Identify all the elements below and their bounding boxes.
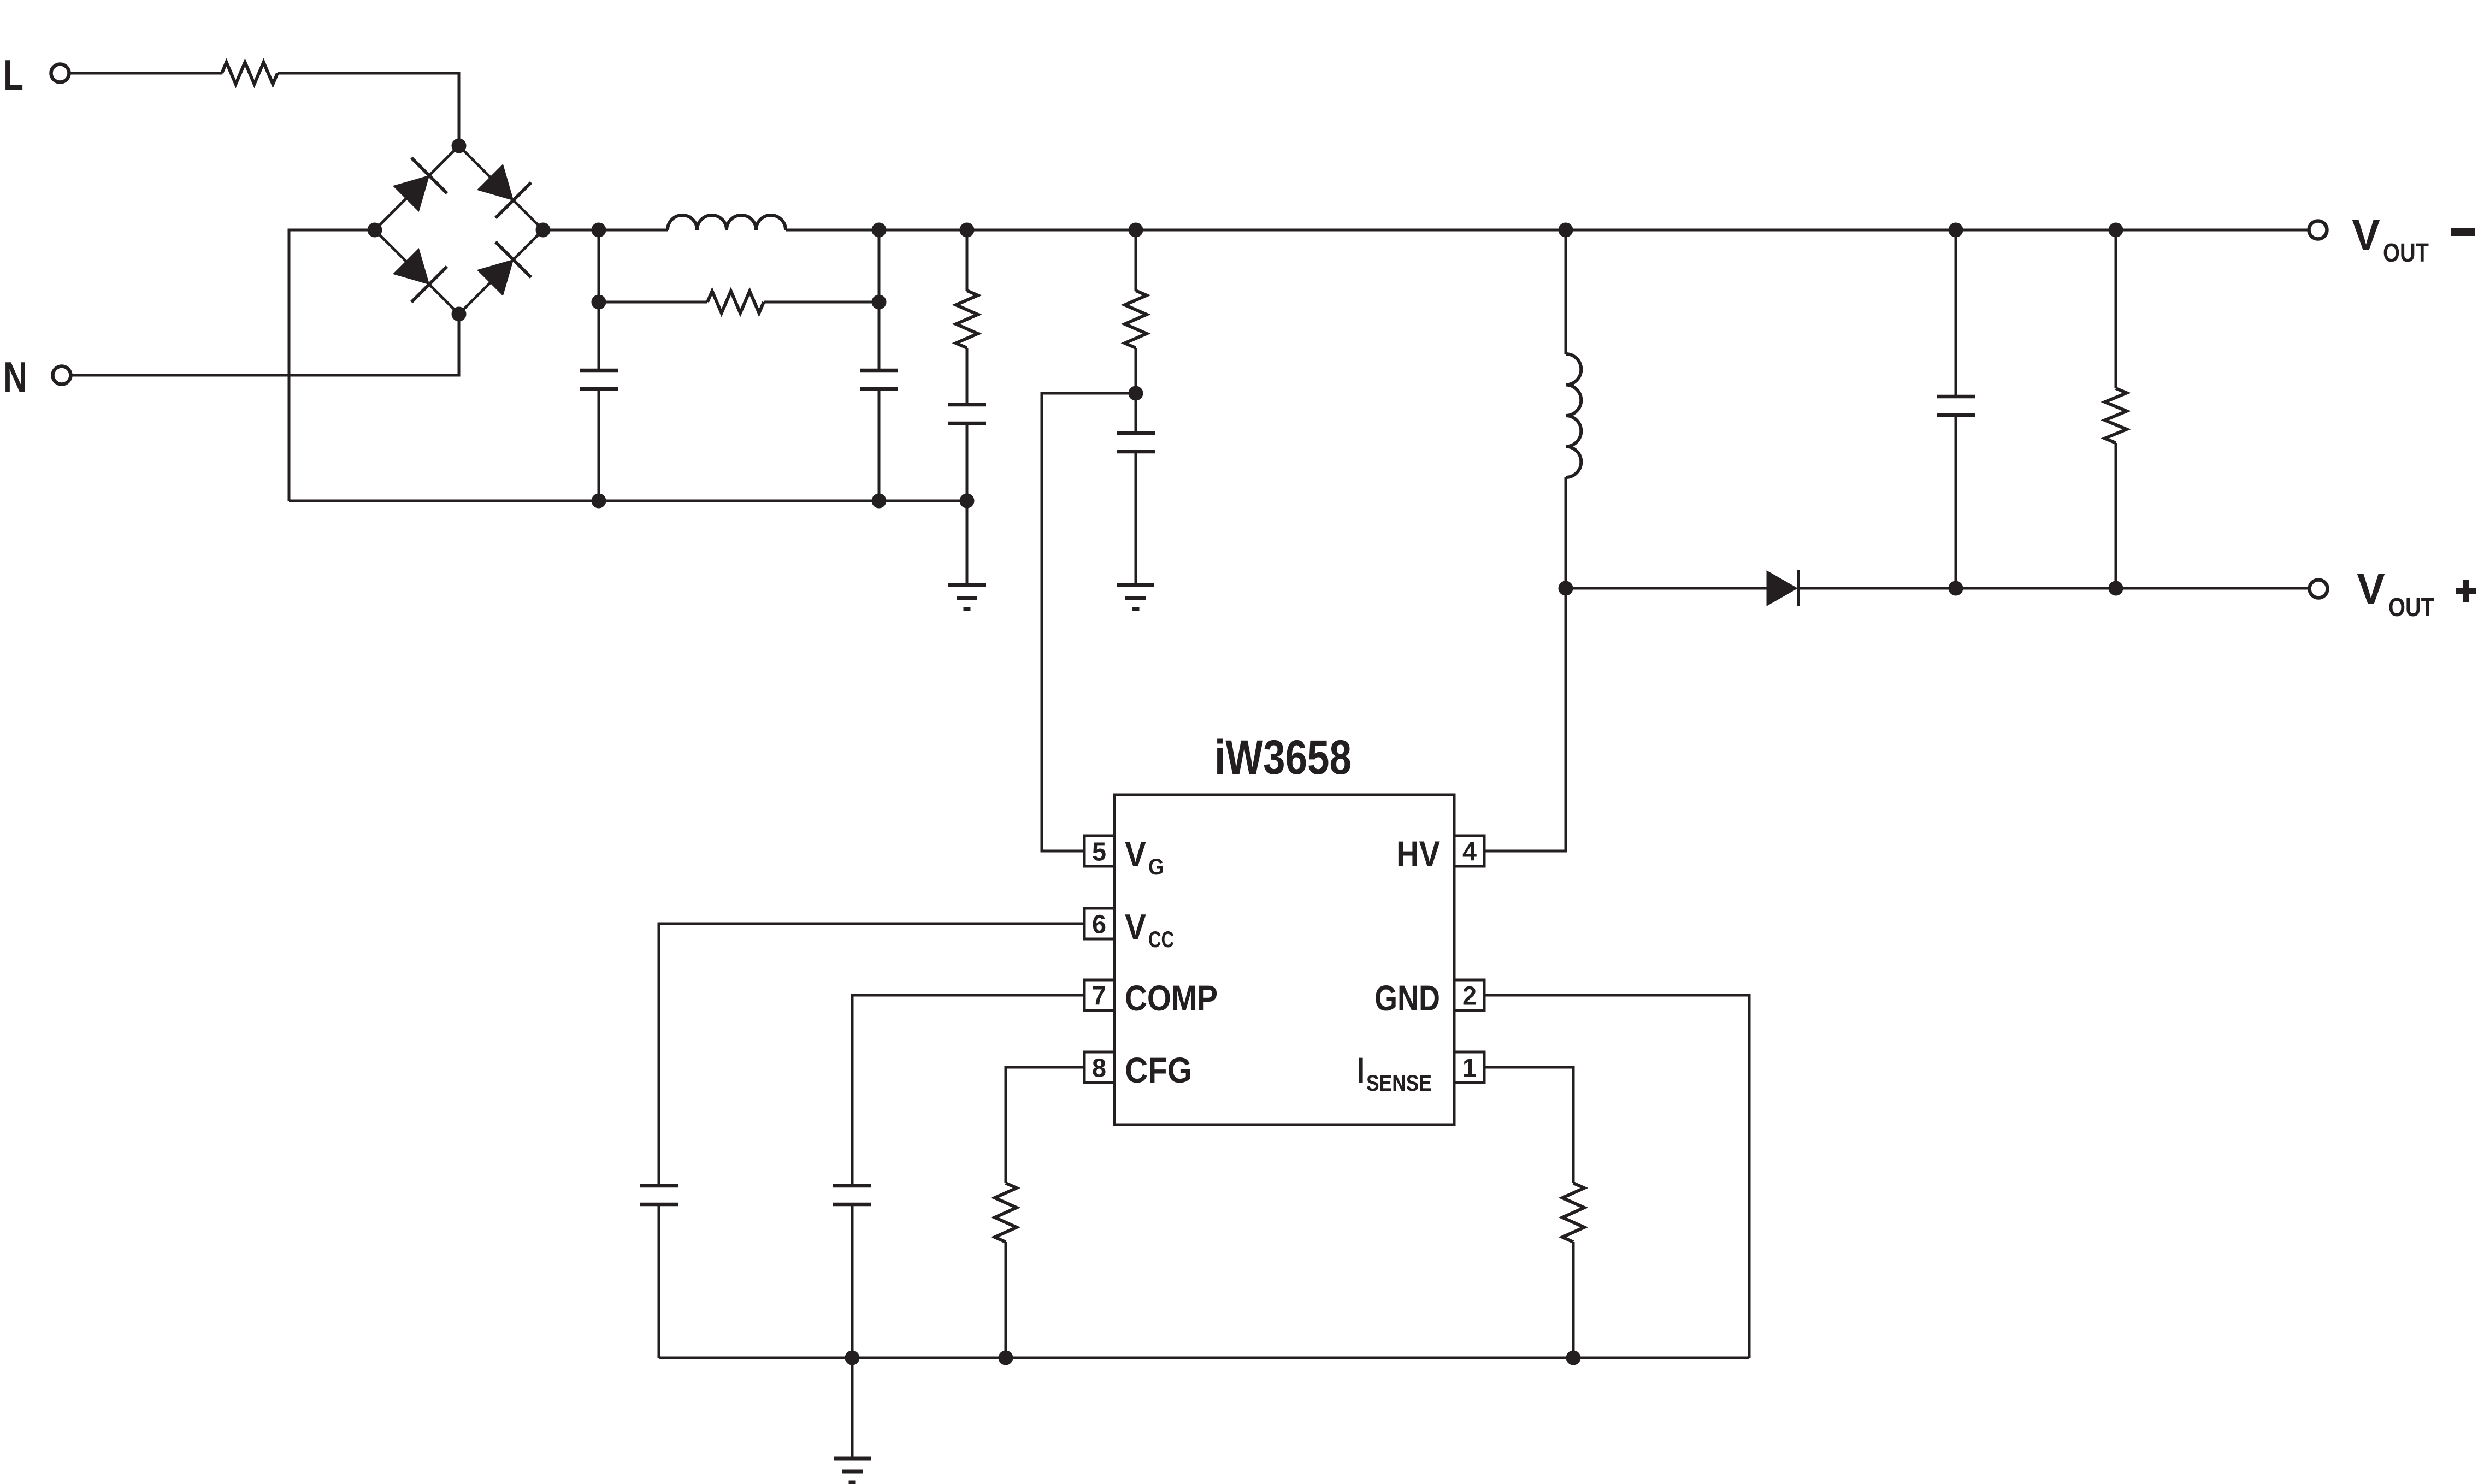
ground (C4) <box>1117 583 1154 587</box>
inductor L2 (buck) <box>1566 354 1581 477</box>
wire R4 bottom lead <box>2115 443 2117 588</box>
svg-text:OUT: OUT <box>2383 239 2429 268</box>
pin 1 box <box>1454 1052 1484 1083</box>
terminal L <box>51 64 69 82</box>
svg-text:G: G <box>1148 854 1164 879</box>
svg-text:1: 1 <box>1462 1054 1477 1083</box>
node B (bus / C2 branch) <box>872 223 887 238</box>
svg-text:V: V <box>2352 210 2380 259</box>
resistor R4 (load) <box>2105 388 2127 443</box>
node bridge bottom <box>452 307 467 322</box>
node B2 (R1 right end) <box>872 295 887 310</box>
wire bridge left node to left return rail <box>289 230 375 501</box>
svg-text:5: 5 <box>1092 838 1106 867</box>
node H2 (VOUT+ rail / R4) <box>2109 581 2123 596</box>
wire R5 to analog rail <box>1005 1242 1007 1358</box>
wire bus: inductor L1 to node C <box>786 229 2309 232</box>
node G2 (VOUT+ rail / C5) <box>1949 581 1963 596</box>
svg-text:CFG: CFG <box>1125 1050 1192 1090</box>
bridge diode D1 (left node to top node) <box>393 175 429 211</box>
capacitor C2 <box>860 369 898 373</box>
capacitor C3 <box>948 403 986 407</box>
node return rail / C1 <box>592 494 606 509</box>
ground (return rail) <box>948 583 986 587</box>
wire node F to pin 4 HV <box>1484 588 1566 851</box>
svg-text:2: 2 <box>1462 982 1477 1011</box>
svg-text:V: V <box>2357 564 2385 613</box>
wire R2 top lead <box>966 230 969 291</box>
bridge diode D2 (top node to right node) <box>477 164 514 200</box>
resistor R3 <box>1125 291 1147 348</box>
resistor R6 (current sense) <box>1562 1183 1584 1242</box>
wire node VG to C4 <box>1135 393 1137 433</box>
node C (bus / R2 branch) <box>960 223 975 238</box>
wire pin 7 COMP to C7 <box>852 995 1084 1186</box>
wire C5 upper lead <box>1955 230 1957 397</box>
wire bus to inductor L2 <box>1565 230 1567 354</box>
node H (bus / R4) <box>2109 223 2123 238</box>
wire return rail to ground <box>966 501 969 585</box>
terminal VOUT- <box>2309 221 2327 239</box>
terminal N <box>53 366 71 385</box>
svg-text:N: N <box>3 353 27 401</box>
wire branch B upper <box>878 230 881 370</box>
resistor R1 (damping, horizontal) <box>599 301 707 304</box>
wire analog ground rail <box>659 1357 1749 1359</box>
svg-text:V: V <box>1125 834 1146 874</box>
node VG (R3 / C4 / gate wire) <box>1129 386 1143 401</box>
capacitor C6 (VCC) <box>640 1184 678 1188</box>
svg-text:L: L <box>3 51 23 99</box>
wire analog rail to ground <box>851 1358 854 1458</box>
bridge arm wire bottom-right <box>459 230 543 314</box>
svg-text:COMP: COMP <box>1125 978 1218 1018</box>
capacitor C4 <box>1117 431 1155 435</box>
wire R3 top lead <box>1135 230 1137 291</box>
svg-text:HV: HV <box>1396 833 1440 874</box>
capacitor C5 (output) <box>1937 395 1975 399</box>
node F (L2 / D5 / HV) <box>1559 581 1573 596</box>
wire pin 6 VCC to C6 <box>659 924 1084 1186</box>
pin 5 box <box>1084 836 1114 866</box>
wire branch B lower <box>878 389 881 501</box>
node bridge top <box>452 139 467 153</box>
pin 6 box <box>1084 908 1114 939</box>
bridge arm wire left-top <box>375 146 459 230</box>
node ISENSE rail <box>1566 1351 1581 1365</box>
capacitor C1 <box>580 369 618 373</box>
wire C4 to ground <box>1135 452 1137 585</box>
resistor R5 (CFG) <box>995 1183 1017 1242</box>
wire N terminal to bridge bottom node <box>71 314 459 375</box>
wire R6 to analog rail <box>1572 1242 1575 1358</box>
svg-text:4: 4 <box>1462 838 1477 867</box>
pin 7 box <box>1084 980 1114 1010</box>
node return rail / R2 branch <box>960 494 975 509</box>
wire bus: bridge right node to EMI inductor <box>543 229 668 232</box>
node bridge right <box>536 223 551 238</box>
wire diode D5 cathode to VOUT+ terminal <box>1797 587 2309 590</box>
svg-text:SENSE: SENSE <box>1366 1070 1432 1096</box>
wire branch A lower <box>598 389 600 501</box>
svg-text:V: V <box>1125 907 1146 947</box>
wire pin 8 CFG to R5 <box>1006 1067 1084 1183</box>
svg-text:CC: CC <box>1148 926 1174 952</box>
bridge diode D4 (bottom node to right node) <box>477 259 514 295</box>
resistor R2 <box>956 291 978 348</box>
svg-text:I: I <box>1357 1050 1365 1090</box>
wire node VG to pin 5 VG <box>1042 393 1136 851</box>
svg-text:GND: GND <box>1374 978 1440 1018</box>
resistor F1 (fuse) <box>222 62 278 84</box>
pin 4 box <box>1454 836 1484 866</box>
pin 8 box <box>1084 1052 1114 1083</box>
wire fuse to bridge top node <box>278 73 459 146</box>
wire return rail (bottom left) <box>289 500 967 502</box>
wire R4 top lead <box>2115 230 2117 388</box>
svg-text:7: 7 <box>1092 982 1106 1011</box>
wire C6 to analog rail <box>658 1204 660 1358</box>
bridge arm wire top-right <box>459 146 543 230</box>
wire C3 to return rail <box>966 423 969 501</box>
node return rail / C2 <box>872 494 887 509</box>
svg-text:OUT: OUT <box>2388 593 2434 622</box>
node E (bus / output inductor) <box>1559 223 1573 238</box>
node A2 (damping resistor tap) <box>592 295 606 310</box>
wire pin 1 ISENSE to R6 <box>1484 1067 1573 1183</box>
capacitor C7 (COMP) <box>833 1184 871 1188</box>
wire C5 lower lead <box>1955 415 1957 588</box>
wire C7 to analog rail <box>851 1204 854 1358</box>
wire R2 to C3 <box>966 348 969 405</box>
op-amp U1 iW3658 body <box>1114 795 1454 1125</box>
svg-text:8: 8 <box>1092 1054 1106 1083</box>
node A (bus / C1 branch) <box>592 223 606 238</box>
svg-text:iW3658: iW3658 <box>1214 730 1352 784</box>
wire node F to diode D5 anode <box>1566 587 1767 590</box>
diode D5 (freewheeling) <box>1767 571 1797 606</box>
wire branch A upper <box>598 230 600 370</box>
wire inductor L2 to node F <box>1565 477 1567 588</box>
bridge diode D3 (left node to bottom node) <box>393 249 429 285</box>
node CFG rail <box>999 1351 1013 1365</box>
wire R3 to node VG <box>1135 348 1137 393</box>
inductor L1 (EMI filter) <box>668 215 786 230</box>
node COMP rail <box>845 1351 860 1365</box>
bridge arm wire left-bottom <box>375 230 459 314</box>
node G (bus / C5) <box>1949 223 1963 238</box>
ground (analog rail) <box>834 1457 871 1461</box>
terminal VOUT+ <box>2310 580 2328 598</box>
svg-text:6: 6 <box>1092 910 1106 939</box>
pin 2 box <box>1454 980 1484 1010</box>
wire pin 2 GND to analog rail <box>1484 995 1749 1358</box>
node bridge left <box>368 223 382 238</box>
node D (bus / R3 branch) <box>1129 223 1143 238</box>
wire L terminal to fuse resistor <box>69 72 222 75</box>
